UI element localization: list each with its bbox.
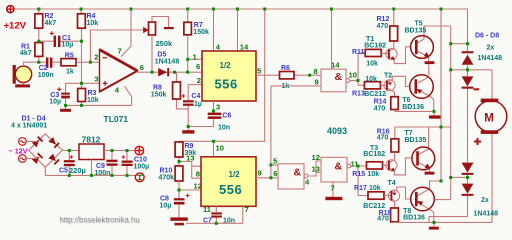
wire opamp output line <box>137 71 202 73</box>
svg-text:T2: T2 <box>384 72 392 79</box>
resistor R10 <box>175 166 183 181</box>
svg-text:14: 14 <box>331 61 340 70</box>
wire mic to C2 <box>24 62 62 66</box>
wire pin1 stub <box>188 58 202 60</box>
pin 4 wire <box>125 86 132 105</box>
resistor R1 <box>35 43 43 57</box>
emitter bar under T5 <box>425 61 435 64</box>
svg-text:13: 13 <box>312 164 320 173</box>
IC U2b 556 <box>201 157 256 207</box>
svg-text:T4: T4 <box>388 180 396 187</box>
ground bar under T8 <box>429 227 439 230</box>
wire bridge bottom to ground rail <box>45 167 135 175</box>
op-amp U1 TL071 <box>100 50 138 92</box>
svg-text:BC182: BC182 <box>363 151 385 158</box>
svg-text:R6: R6 <box>281 65 290 72</box>
svg-text:14: 14 <box>240 43 249 52</box>
svg-text:1k: 1k <box>66 68 74 75</box>
svg-text:C8: C8 <box>160 196 169 203</box>
wire right column B x467.5 rail end <box>429 9 468 222</box>
svg-text:3: 3 <box>216 103 220 112</box>
svg-text:D6 - D8: D6 - D8 <box>475 32 499 39</box>
resistor R13 <box>364 82 380 89</box>
transistor T7 BD135 <box>418 127 430 172</box>
wire R2 column <box>38 9 40 62</box>
svg-text:470: 470 <box>377 216 389 223</box>
svg-text:220µ: 220µ <box>69 166 86 175</box>
transistor T6 BD136 <box>418 64 434 115</box>
svg-text:10: 10 <box>349 71 357 80</box>
svg-text:10k: 10k <box>369 185 381 192</box>
wire 556b pin7 ground run <box>186 206 243 223</box>
transistor T8 BD136 <box>395 181 493 227</box>
svg-text:4k7: 4k7 <box>45 20 57 27</box>
svg-text:7: 7 <box>331 184 335 193</box>
svg-text:BD135: BD135 <box>405 27 427 34</box>
wire 7812 output rail <box>104 150 135 152</box>
svg-text:R17: R17 <box>354 185 367 192</box>
wire 556b pin10 column <box>213 141 215 157</box>
transistor T4 BC212 <box>384 187 410 208</box>
svg-text:150k: 150k <box>193 29 209 36</box>
wire P1 bottom to output <box>151 35 153 72</box>
wire 556b pin9 to gates <box>256 86 271 178</box>
svg-text:4k7: 4k7 <box>20 50 32 57</box>
wire 556a pin4 pin14 columns <box>214 9 238 51</box>
wire gate2 out to gate3 inputs <box>308 161 321 176</box>
svg-text:1/2: 1/2 <box>229 170 241 179</box>
svg-text:4 x 1N4001: 4 x 1N4001 <box>11 123 47 130</box>
svg-text:R11: R11 <box>352 49 365 56</box>
svg-text:10k: 10k <box>87 20 99 27</box>
svg-text:100µ: 100µ <box>134 163 150 170</box>
svg-text:10n: 10n <box>218 125 230 132</box>
svg-text:2: 2 <box>197 76 201 85</box>
gate U3b 4093 <box>278 164 308 189</box>
capacitor C2 <box>46 57 52 67</box>
resistor R16 <box>391 139 399 152</box>
motor M1 <box>475 99 507 134</box>
wire gate1 output <box>350 80 358 82</box>
motor minus label <box>474 88 480 90</box>
svg-text:R8: R8 <box>153 85 162 92</box>
svg-text:7812: 7812 <box>82 135 101 145</box>
wire gate3 out node column <box>358 166 368 196</box>
svg-text:3: 3 <box>94 75 98 84</box>
wire motor top lead <box>491 70 493 99</box>
svg-text:250k: 250k <box>156 39 174 48</box>
resistor R9 <box>178 141 180 166</box>
svg-text:6: 6 <box>140 63 144 72</box>
svg-text:C5: C5 <box>59 168 68 175</box>
output terminal ground <box>135 173 144 182</box>
ground under C8 <box>170 217 187 220</box>
svg-text:C4: C4 <box>191 93 200 100</box>
wire +12V top rail <box>15 8 468 10</box>
svg-text:BC212: BC212 <box>363 203 385 210</box>
diode D8 <box>462 163 474 175</box>
wire bridge to 7812 <box>62 150 79 152</box>
svg-text:11: 11 <box>203 205 212 214</box>
gate U3c 4093 <box>321 157 351 182</box>
resistor R12 <box>393 9 395 26</box>
svg-text:1/2: 1/2 <box>220 61 232 70</box>
svg-text:R5: R5 <box>65 53 74 60</box>
svg-text:C9: C9 <box>96 163 105 170</box>
svg-text:R13: R13 <box>352 90 365 97</box>
mic ground <box>23 83 25 85</box>
motor plus label <box>474 138 481 145</box>
svg-text:1N4148: 1N4148 <box>478 55 503 62</box>
svg-text:6: 6 <box>273 169 277 178</box>
svg-text:100n: 100n <box>38 72 54 79</box>
resistor R14 <box>391 97 398 110</box>
resistor R5 <box>61 59 76 66</box>
wire R14 bottom to T6 <box>395 110 434 112</box>
svg-text:10µ: 10µ <box>160 203 172 210</box>
potentiometer P1 <box>143 17 174 36</box>
svg-text:M: M <box>484 113 494 125</box>
svg-text:10k: 10k <box>366 61 378 68</box>
wire 556a pin5 line + resistor R6 <box>256 74 321 76</box>
wire gate2 input stubs <box>271 165 278 178</box>
wire R5 to opamp pin2 <box>76 61 100 63</box>
svg-text:470: 470 <box>377 135 389 142</box>
resistor R17 <box>368 192 384 199</box>
svg-text:556: 556 <box>219 182 242 197</box>
wire 7812 ground pin <box>91 160 93 176</box>
wire motor bottom lead <box>491 134 493 223</box>
svg-text:BD136: BD136 <box>403 215 425 222</box>
svg-text:2: 2 <box>94 53 98 62</box>
emitter bar under T7 <box>425 172 435 175</box>
transistor T3 BC182 <box>383 152 413 175</box>
capacitor C8 <box>178 181 180 217</box>
wire AC stubs <box>26 141 37 158</box>
svg-text:8: 8 <box>196 170 200 179</box>
svg-text:8: 8 <box>314 67 318 76</box>
microphone MIC <box>13 65 32 84</box>
ground under C3 <box>65 105 67 108</box>
svg-text:+12V: +12V <box>4 21 27 32</box>
svg-text:1N4148: 1N4148 <box>474 211 499 218</box>
capacitor C5 <box>68 151 70 176</box>
svg-text:10µ: 10µ <box>49 99 61 106</box>
svg-text:9: 9 <box>258 169 262 178</box>
svg-text:D1 - D4: D1 - D4 <box>22 115 46 122</box>
transistor T1 BC182 <box>381 41 411 64</box>
wire right column A x450.7 <box>435 26 451 200</box>
svg-text:TL071: TL071 <box>104 114 129 124</box>
AC terminal 1 <box>19 138 27 146</box>
bridge rectifier D1-D4 <box>29 134 63 168</box>
svg-text:&: & <box>335 161 343 173</box>
svg-text:10k: 10k <box>87 97 99 104</box>
svg-text:470: 470 <box>374 105 386 112</box>
wire 4093 pin14 column <box>331 9 333 69</box>
svg-text:7: 7 <box>245 205 249 214</box>
svg-text:9: 9 <box>315 78 319 87</box>
svg-text:10µ: 10µ <box>62 42 74 49</box>
svg-text:&: & <box>335 71 343 83</box>
wire R16 top feed <box>395 127 451 139</box>
wire cross links diode ladder <box>451 44 492 178</box>
wire 556b pin11 + capacitor C7 <box>215 206 217 223</box>
wire C1 link <box>39 40 82 42</box>
wire +12 column x441 <box>440 9 442 181</box>
svg-text:BD135: BD135 <box>405 137 427 144</box>
wire 556a pin3 column + capacitor C6 <box>188 101 213 127</box>
svg-text:10k: 10k <box>368 171 380 178</box>
capacitor C4 <box>187 85 189 131</box>
svg-text:150k: 150k <box>151 92 167 99</box>
svg-text:470k: 470k <box>159 175 175 182</box>
transistor T5 BD135 <box>416 26 450 61</box>
capacitor C9 <box>111 151 113 176</box>
resistor R18 <box>391 208 399 222</box>
wire pin3 line <box>66 83 100 92</box>
ground under C4 <box>182 130 194 133</box>
wire 556b pins13+8 <box>179 162 201 179</box>
svg-text:4093: 4093 <box>327 126 347 136</box>
diode D6 <box>462 51 474 65</box>
resistor R15 <box>367 162 383 169</box>
power terminal +12V <box>7 6 14 13</box>
capacitor C3 <box>57 87 70 98</box>
svg-text:BC212: BC212 <box>364 91 386 98</box>
wire 556a pin2 stub <box>188 84 202 86</box>
wire ground line under opamp <box>66 98 132 105</box>
svg-text:6: 6 <box>196 62 200 71</box>
resistor R8 <box>177 72 189 109</box>
svg-text:10: 10 <box>216 144 224 153</box>
resistor R3 <box>81 83 83 105</box>
svg-text:R10: R10 <box>160 168 173 175</box>
gate U3a 4093 <box>321 69 350 92</box>
IC U4 7812 <box>79 144 104 160</box>
ground bar under T6 <box>429 115 441 118</box>
wire R4 column <box>80 9 83 89</box>
IC U2a 556 <box>202 51 256 101</box>
svg-text:100n: 100n <box>95 170 111 177</box>
transistor T2 BC212 <box>380 76 410 96</box>
wire gate1 out node column <box>358 53 365 85</box>
svg-text:BC182: BC182 <box>364 42 386 49</box>
svg-text:&: & <box>294 167 302 179</box>
svg-text:1N4148: 1N4148 <box>155 58 180 65</box>
svg-text:10k: 10k <box>365 76 377 83</box>
diode D9 <box>462 184 474 196</box>
svg-text:7: 7 <box>118 47 122 56</box>
wire +12 drop x265 to timer2 <box>179 9 265 141</box>
capacitor C10 <box>126 151 128 176</box>
svg-text:556: 556 <box>215 77 238 92</box>
svg-text:http://bsselektronika.hu: http://bsselektronika.hu <box>60 216 140 225</box>
svg-text:470: 470 <box>377 23 389 30</box>
resistor R7 <box>187 9 189 72</box>
svg-text:BD136: BD136 <box>402 104 424 111</box>
wire gate3 ground pin7 <box>332 182 334 197</box>
pin 7 wire <box>121 9 131 57</box>
svg-text:12: 12 <box>312 153 320 162</box>
wire gate1 input lines <box>271 85 321 87</box>
diode D7 <box>462 76 474 88</box>
wire 556b pin12 <box>179 189 201 191</box>
svg-text:1µ: 1µ <box>194 101 202 108</box>
AC terminal 2 <box>19 155 27 163</box>
capacitor C1 <box>50 31 61 47</box>
svg-text:2x: 2x <box>481 197 489 204</box>
svg-text:C6: C6 <box>222 113 231 120</box>
resistor R2 <box>35 14 43 28</box>
svg-text:13: 13 <box>186 154 194 163</box>
svg-text:R15: R15 <box>352 171 365 178</box>
wire feedback to P1 <box>90 30 143 62</box>
output terminal plus <box>135 146 144 155</box>
svg-text:~ 12V: ~ 12V <box>9 146 28 155</box>
diode D5 <box>158 68 169 76</box>
svg-text:2x: 2x <box>487 45 495 52</box>
svg-text:1k: 1k <box>282 83 290 90</box>
resistor R4 <box>78 14 86 28</box>
svg-text:T5: T5 <box>415 20 423 27</box>
resistor R11 <box>365 49 381 56</box>
